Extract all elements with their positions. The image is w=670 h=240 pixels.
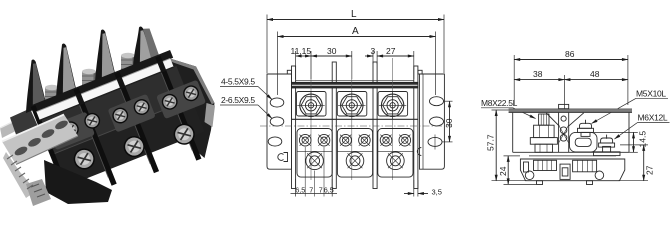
M5 screw	[578, 120, 594, 137]
left mounting flange	[267, 70, 292, 169]
svg-text:27: 27	[386, 46, 396, 56]
svg-text:30: 30	[444, 118, 454, 128]
right end top edge highlight	[170, 59, 215, 105]
hex screw recesses row	[292, 92, 418, 120]
screw pair pole 1	[61, 111, 101, 138]
right mounting flange	[417, 70, 444, 169]
pole centerlines	[311, 58, 393, 180]
svg-text:24: 24	[498, 166, 508, 176]
svg-text:30: 30	[327, 46, 337, 56]
partition wall 1	[74, 88, 117, 186]
stud 2	[82, 69, 96, 97]
bracket upper face	[0, 114, 35, 139]
upper housing outline	[513, 113, 629, 153]
big screw pole 2	[121, 134, 146, 159]
svg-text:A: A	[352, 26, 359, 37]
label strip (marking band)	[292, 80, 418, 88]
body core (rotated frame)	[30, 45, 224, 210]
tier A / B step highlight	[52, 99, 191, 154]
fin 1	[26, 60, 47, 113]
screw pair pole 2	[111, 98, 151, 125]
partition caps crossing strip	[75, 93, 84, 106]
svg-text:3,5: 3,5	[432, 188, 442, 197]
fin 4	[133, 27, 160, 69]
base rail mount	[520, 156, 624, 185]
body end posts and partitions	[292, 62, 418, 189]
leader M6X12L	[615, 113, 670, 139]
dimension 57.7	[486, 110, 528, 181]
svg-text:86: 86	[565, 49, 575, 59]
dimension 86	[514, 49, 628, 105]
M8 stud	[530, 114, 557, 153]
svg-text:27: 27	[645, 165, 655, 175]
leader M8X22.5L	[481, 98, 536, 119]
fin 3	[95, 30, 116, 84]
fin 2	[56, 44, 77, 100]
leader 4-5.5x9.5	[220, 77, 272, 100]
lower pole block 2	[337, 129, 372, 178]
vertical dimension 30 (right)	[442, 101, 454, 142]
busbar hook	[570, 132, 598, 152]
leader M5X10L	[592, 89, 669, 124]
svg-text:48: 48	[590, 69, 600, 79]
lower pole block 3	[378, 129, 413, 178]
dimension 27	[618, 145, 655, 181]
screw pair pole 3	[160, 84, 200, 111]
stud 3	[121, 53, 135, 81]
lower front shadow mass	[44, 160, 112, 204]
svg-text:M6X12L: M6X12L	[638, 113, 668, 123]
svg-text:38: 38	[533, 69, 543, 79]
partition wall 2	[114, 72, 159, 173]
svg-text:7: 7	[319, 185, 323, 194]
right end sliver highlight	[205, 103, 216, 127]
dimension L	[267, 9, 444, 73]
dimension 24	[498, 156, 536, 185]
centre post with funnel	[546, 113, 584, 153]
svg-text:7: 7	[309, 185, 313, 194]
dimensions 38 / 48	[514, 69, 628, 111]
hex screw 1	[297, 92, 324, 119]
svg-text:6,5: 6,5	[295, 185, 305, 194]
mounting bracket plate	[2, 115, 78, 207]
top cover band	[509, 109, 632, 112]
partition wall left end	[31, 105, 68, 188]
M6 screw	[594, 135, 621, 156]
dimension A	[278, 26, 436, 95]
horizontal centreline	[260, 125, 452, 127]
big screw pole 1	[72, 146, 97, 171]
svg-text:4-5.5X9.5: 4-5.5X9.5	[221, 77, 255, 87]
svg-text:2-6.5X9.5: 2-6.5X9.5	[221, 95, 255, 105]
hex screw 3	[379, 92, 406, 119]
hex screw 2	[338, 92, 365, 119]
svg-text:6,5: 6,5	[324, 185, 334, 194]
stud 1	[45, 85, 59, 113]
leader 2-6.5x9.5	[220, 95, 272, 119]
bottom chain dimensions 6,5 7 7 6,5	[291, 147, 338, 197]
pole decks	[47, 111, 95, 150]
bracket slots	[13, 145, 28, 157]
svg-text:3: 3	[371, 46, 376, 56]
left end cap	[10, 109, 40, 144]
svg-text:57.7: 57.7	[486, 134, 496, 151]
dimension 14.5	[629, 131, 648, 153]
bracket serrated foot	[3, 152, 36, 198]
dimension 3,5 (end post width)	[404, 180, 442, 197]
dimension 11,15 / 30 / 3 / 27	[291, 46, 414, 79]
tier A face	[38, 66, 190, 155]
tier B face	[52, 99, 204, 187]
big screw pole 3	[171, 121, 196, 146]
right ledge line	[594, 131, 629, 133]
svg-text:M5X10L: M5X10L	[636, 89, 666, 99]
svg-text:11,15: 11,15	[291, 46, 312, 56]
right end plate	[170, 59, 215, 159]
label strip	[36, 58, 173, 120]
shoulder above strip	[32, 50, 174, 113]
partition wall 3 (right end)	[155, 55, 201, 160]
lower pole block 1	[297, 129, 332, 178]
svg-text:L: L	[351, 9, 357, 20]
svg-text:M8X22.5L: M8X22.5L	[481, 98, 518, 108]
